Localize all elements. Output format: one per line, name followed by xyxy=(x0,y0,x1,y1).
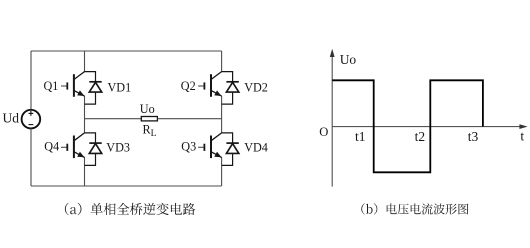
svg-text:t1: t1 xyxy=(355,129,366,144)
voltage source Ud xyxy=(22,110,41,129)
wire left branch middle xyxy=(84,96,86,133)
wire bottom rail xyxy=(31,185,222,187)
caption (a) 单相全桥逆变电路 xyxy=(65,203,195,215)
svg-text:Uo: Uo xyxy=(340,52,357,67)
wire left rail lower xyxy=(30,128,32,186)
wire left branch lower xyxy=(84,157,86,186)
svg-text:t: t xyxy=(520,129,524,144)
svg-text:VD4: VD4 xyxy=(244,141,268,155)
svg-text:Uo: Uo xyxy=(140,102,155,116)
svg-text:t2: t2 xyxy=(415,129,426,144)
wire load right xyxy=(157,118,221,120)
wire left branch upper xyxy=(84,51,86,72)
svg-text:Q4: Q4 xyxy=(44,140,59,154)
transistor Q4 xyxy=(61,133,85,158)
svg-text:Q1: Q1 xyxy=(44,79,59,93)
wire load left xyxy=(85,118,142,120)
waveform y-axis xyxy=(330,49,335,187)
wire left rail upper xyxy=(30,51,32,110)
waveform x-axis xyxy=(332,124,527,129)
transistor Q2 xyxy=(198,72,222,97)
svg-text:VD2: VD2 xyxy=(244,81,268,95)
wire top rail xyxy=(31,50,222,52)
transistor Q1 xyxy=(61,72,85,97)
diode VD4 xyxy=(222,133,239,166)
svg-text:t3: t3 xyxy=(468,129,479,144)
svg-text:VD3: VD3 xyxy=(106,141,130,155)
svg-text:Q2: Q2 xyxy=(181,79,196,93)
svg-text:Q3: Q3 xyxy=(181,139,196,153)
caption (b) 电压电流波形图 xyxy=(361,203,468,214)
wire right branch lower xyxy=(221,157,223,186)
resistor RL xyxy=(141,117,157,121)
wire right branch upper xyxy=(221,51,223,72)
wire right branch middle xyxy=(221,96,223,133)
diode VD2 xyxy=(222,72,239,105)
svg-text:VD1: VD1 xyxy=(108,81,132,95)
transistor Q3 xyxy=(198,133,222,158)
diode VD1 xyxy=(85,72,102,105)
svg-text:Ud: Ud xyxy=(3,111,20,126)
svg-text:O: O xyxy=(319,125,328,139)
waveform square wave Uo xyxy=(332,80,483,172)
diode VD3 xyxy=(85,133,102,166)
